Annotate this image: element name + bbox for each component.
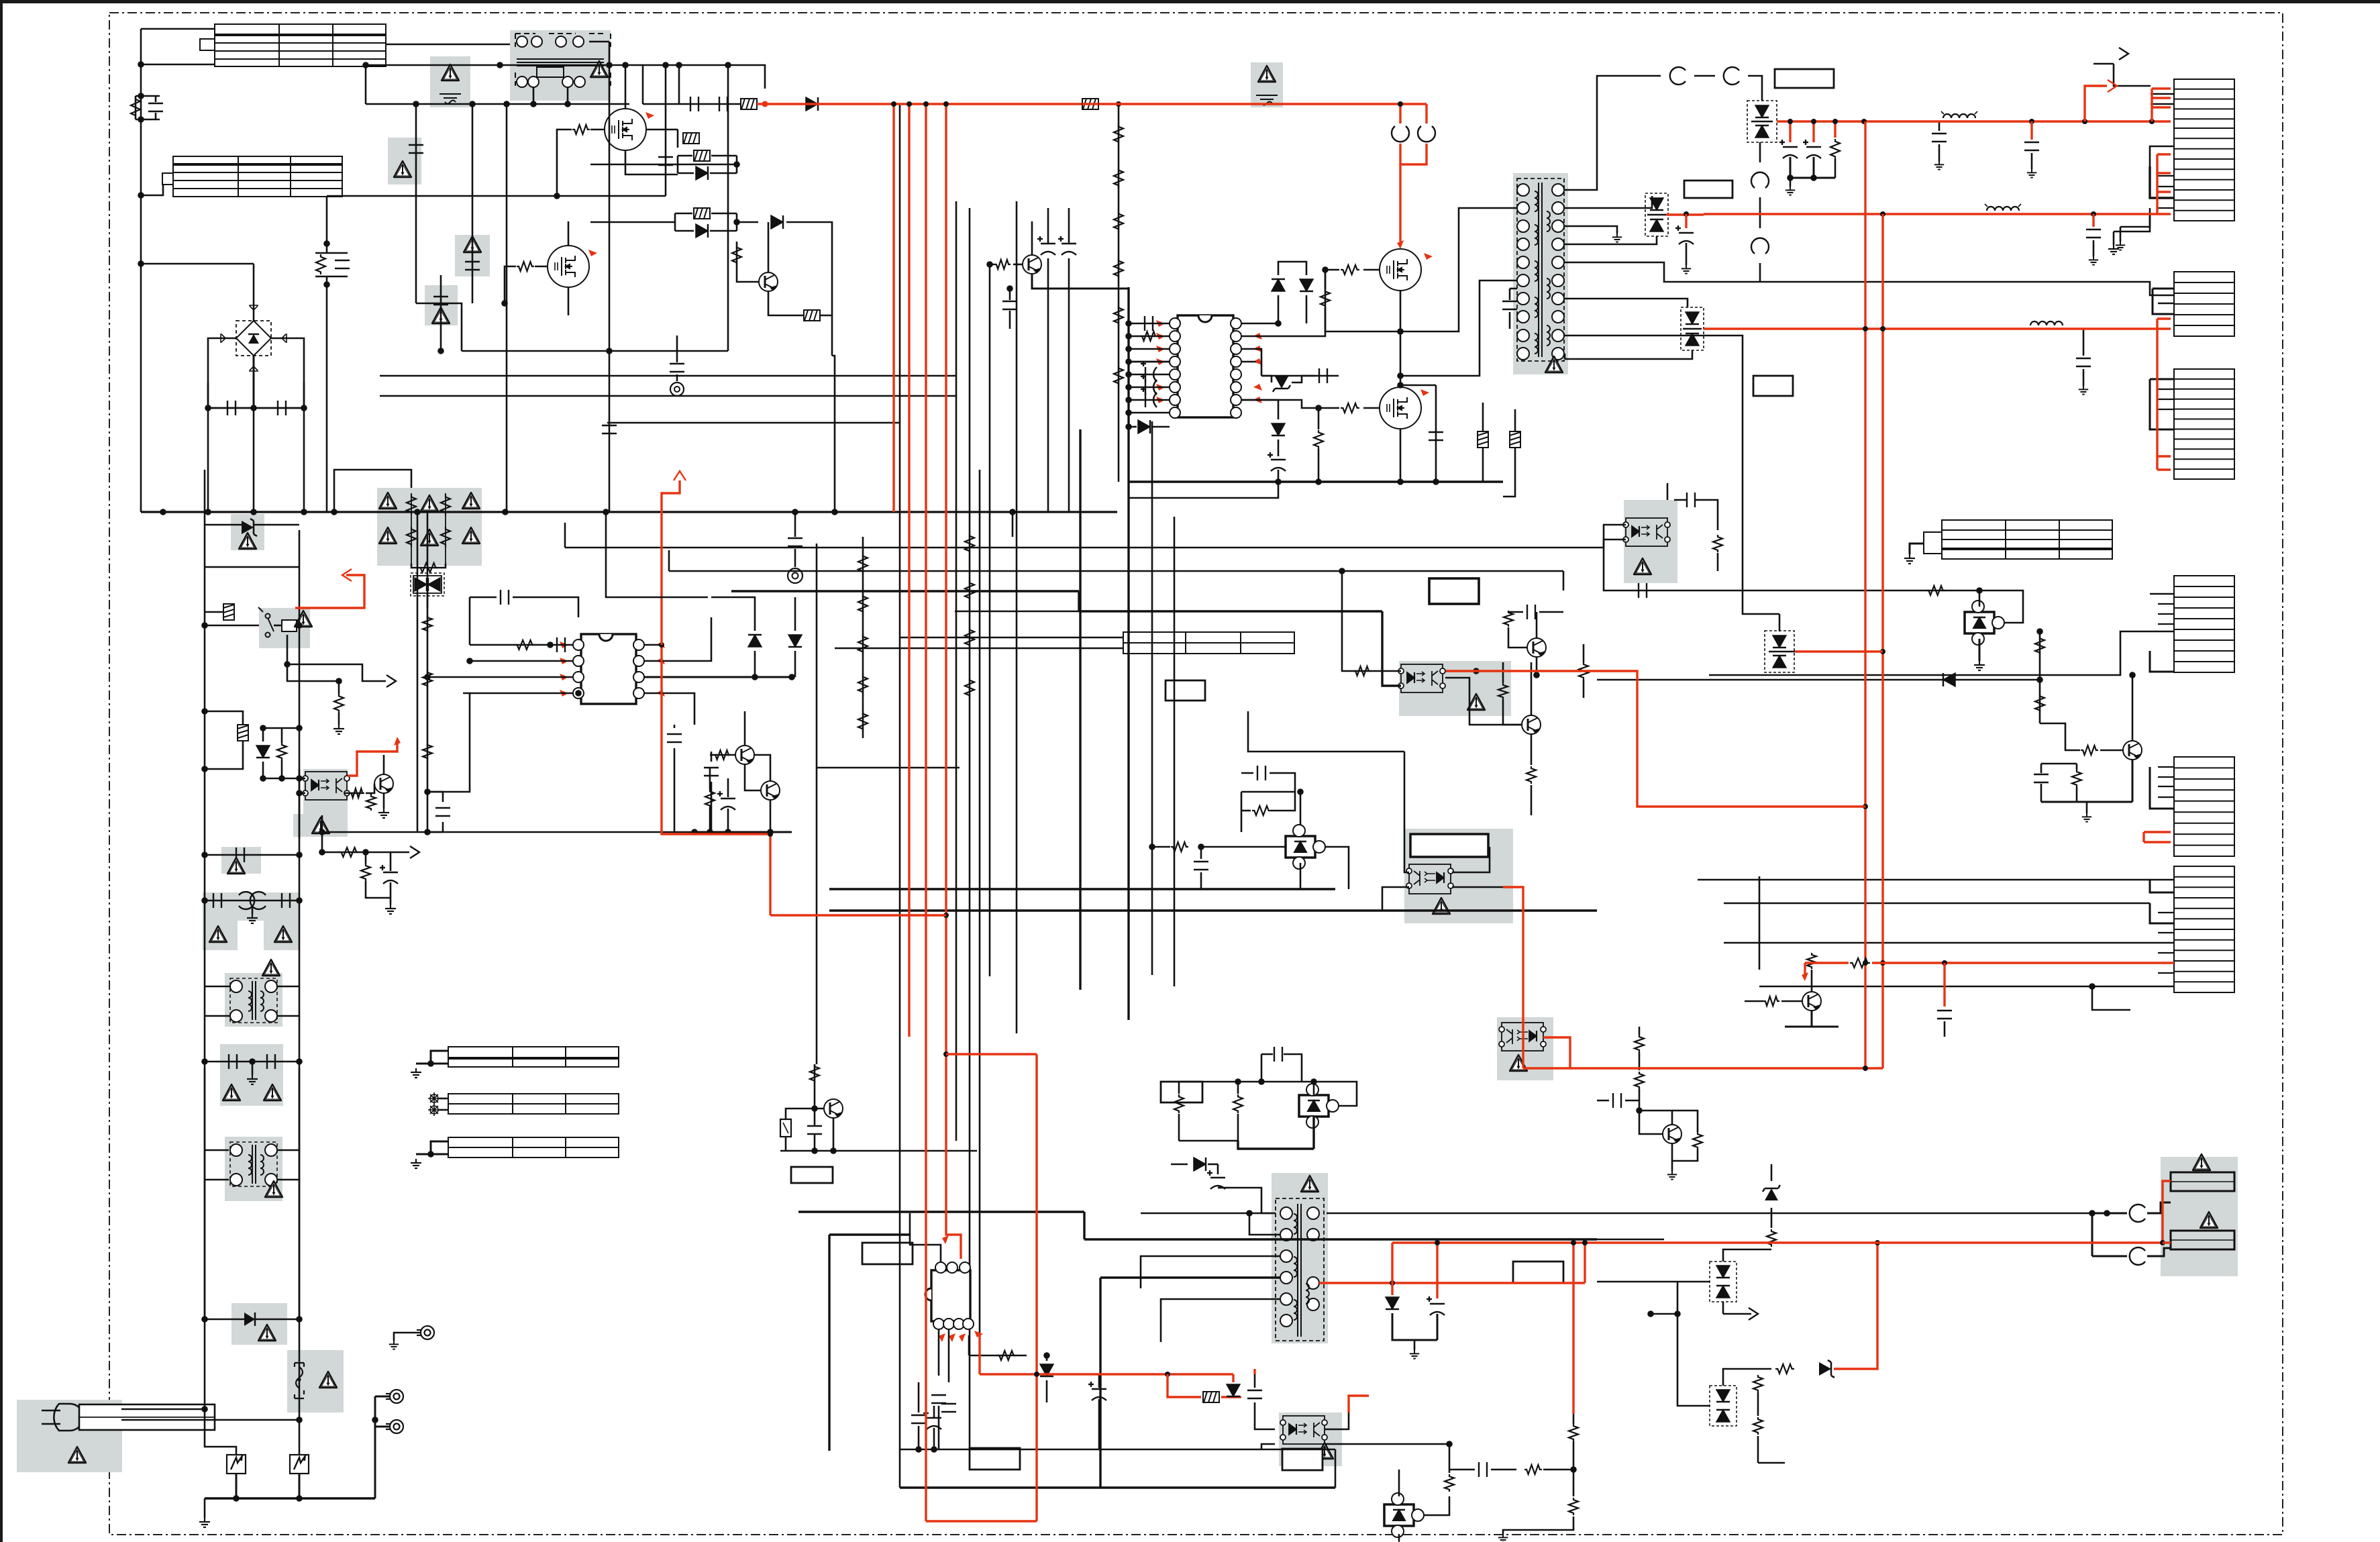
wire M3 source (1400, 291, 1402, 385)
red y1364 (770, 914, 946, 916)
wire y523 (462, 350, 728, 352)
gnd bus under IC1 (694, 831, 792, 833)
sec pin1R riser (1565, 76, 1661, 190)
X caps under bridge (208, 403, 304, 408)
shunt U-C (1384, 1493, 1424, 1537)
wire grid drop (427, 512, 429, 608)
IC2 body (1178, 315, 1233, 417)
dual diode pack2 (1645, 193, 1668, 236)
wire M4 gate (1363, 407, 1380, 409)
mosfet M3 (1380, 249, 1421, 291)
left page edge line (0, 0, 3, 1542)
wire comb stub (2150, 651, 2174, 672)
long thick h1806 (798, 1211, 1084, 1213)
wire IC3 top1 (910, 1235, 941, 1262)
long black h1810 (1597, 1239, 1664, 1241)
wire Q1 emitter (768, 291, 832, 315)
isolation transformer G12 (225, 973, 282, 1027)
res x2620 pair (1753, 1375, 1763, 1392)
wire top feed line (709, 65, 765, 89)
ref label L6b (791, 1167, 833, 1183)
resistor R-cap pair snubber2 (315, 252, 348, 254)
warning area G4 (455, 235, 490, 276)
diodes right of IC1 (748, 635, 762, 647)
shunt U-A (1965, 601, 2004, 645)
ref label L5 (1166, 680, 1205, 701)
ref label L8 (1513, 1262, 1563, 1283)
pol cap right (1088, 1382, 1106, 1400)
bjt Q1 (759, 272, 778, 291)
red ic3 bus (980, 1373, 1233, 1375)
connector CN-D (2174, 369, 2234, 479)
line filter transformer G2 (510, 30, 611, 101)
bjt Q10 (1023, 255, 1041, 274)
opto out down (321, 815, 323, 852)
opto G26 wires (1255, 1402, 1275, 1429)
wire h911 to opto (1382, 611, 1401, 686)
wire Q4 collector (383, 755, 385, 774)
opto G9 wires (299, 778, 305, 780)
wire IC1 right2 (644, 617, 711, 661)
red comb A stubs (2151, 89, 2153, 121)
wire Q9 emit (2132, 760, 2134, 802)
wire h763 tail (1012, 512, 1014, 537)
wire left join (1597, 1281, 1677, 1283)
shunt U-D (1299, 1084, 1339, 1128)
note table T5 (448, 1047, 619, 1067)
trafo G14 connects (205, 1149, 229, 1151)
wire T3 feeds (900, 637, 1123, 639)
wire Q10 coll (1031, 221, 1033, 255)
cluster cap res (2034, 774, 2049, 782)
cap snub trafo (1502, 301, 1517, 309)
note table T2 (162, 156, 342, 197)
shunt U-B (1286, 825, 1325, 869)
relay connect (205, 625, 259, 627)
wire y452 (416, 303, 462, 351)
ref label L6 (862, 1243, 913, 1264)
wire trafo25 top pins (1228, 1188, 1276, 1213)
cap area G10 (221, 847, 261, 874)
wire Q11 wires (785, 1137, 787, 1151)
wire to table T1 bottom (141, 64, 215, 66)
red opto g22 (1503, 887, 1523, 986)
red rail2 cap2 (1685, 214, 1687, 228)
connector CN-H (2174, 866, 2234, 992)
wire IC3 left thick (829, 1233, 910, 1235)
red rail1 cap (2030, 121, 2032, 140)
wire Q1 collector (768, 222, 770, 272)
wire h881 thick (731, 590, 1079, 592)
wire bridge top feed (141, 263, 254, 265)
wire h1357 thick (829, 909, 1597, 911)
wire Q11 base cap (807, 1126, 822, 1134)
cluster res caps (1635, 1035, 1644, 1052)
sec rail1 caps (1789, 121, 1791, 142)
bridge rectifier (236, 321, 271, 356)
wire trafo p4 thick (1100, 1276, 1280, 1278)
wire h630 (607, 422, 900, 424)
IC2 pins left (1170, 318, 1180, 329)
wire to table T1 row1 (141, 28, 215, 30)
red zener joint (1834, 1243, 1877, 1369)
opto coupler area G20 (1624, 500, 1677, 583)
wire bridge right leg (271, 338, 304, 403)
IC3 body (931, 1270, 970, 1321)
wire Q9 base (2100, 750, 2123, 752)
bjt Q7 (1522, 715, 1541, 734)
ref label L13 (1161, 1082, 1202, 1102)
wire q7 row (1445, 678, 1522, 725)
bjt Q9 (2123, 741, 2142, 760)
bus v1341 (899, 104, 901, 1488)
ring gnd 2 (676, 336, 678, 362)
main transformer G19 (1513, 173, 1568, 374)
wire v992 (665, 65, 667, 196)
chain zener taps (205, 524, 242, 526)
CN wire up (2092, 1213, 2127, 1215)
earth riser (374, 1396, 376, 1498)
wire 908 to bus (609, 65, 611, 512)
pack3 feeds (1565, 299, 1688, 307)
snubber cap right (1435, 385, 1437, 482)
sec long pin4 (1565, 262, 2174, 295)
red CN bottom (2163, 1181, 2171, 1243)
red drop x1410 (946, 104, 961, 1259)
wire h1310 (1698, 879, 2174, 881)
wire M2 gate (535, 266, 547, 268)
zener pair mid (1272, 279, 1285, 291)
cluster more (1639, 1111, 1663, 1134)
diode area G15 (231, 1303, 287, 1345)
opto coupler area G24 (1497, 1017, 1553, 1080)
red resistor inline (1082, 99, 1098, 109)
resistor on chain x305 (223, 604, 234, 620)
gate drive resistor top (1241, 270, 1325, 336)
note table T1 (200, 24, 386, 66)
diode res pair above opto (256, 746, 270, 758)
bjt Q11 (824, 1099, 843, 1118)
wire Q2 base res (710, 754, 735, 756)
wire h816 left drop (564, 523, 566, 548)
wire opto21 feed (1342, 571, 1401, 671)
trafo G12 connects (205, 986, 230, 988)
connector CN-A (2174, 79, 2234, 129)
sec pin3R gnd (1565, 226, 1617, 234)
wire M3 gate (1363, 269, 1380, 271)
comb C stubs (2153, 289, 2174, 314)
resistor R-cap pair left top (136, 95, 160, 97)
connector CN-B (2174, 128, 2234, 221)
wire M3 jog to pin (1400, 208, 1517, 331)
IC2 right wires3 (1241, 400, 1278, 419)
bus v1425 (955, 201, 958, 1141)
bus v1560c (1047, 258, 1049, 512)
bus v1717 (1151, 421, 1153, 975)
IC1 pin1 left wire (470, 644, 573, 646)
wire G7 to bus (334, 470, 411, 512)
red mid left (769, 833, 771, 835)
comb D stubs (2150, 378, 2174, 380)
note table T4 (1924, 520, 2112, 559)
zz diode pairs right (1710, 1262, 1737, 1302)
res chain x3040 (2039, 631, 2041, 723)
connector CN-F (2174, 576, 2234, 672)
comb H stubs (2150, 880, 2174, 892)
resistor ladder B (965, 533, 974, 554)
red drop x1355 (908, 104, 910, 1037)
isolation transformer G14 (225, 1137, 282, 1201)
wire res below pair (732, 245, 741, 265)
wire Q10 base (1013, 264, 1023, 266)
wire Q4 base (366, 784, 374, 793)
wire IC1 top caps (469, 597, 471, 645)
arcs top right (1670, 67, 1686, 85)
output connector area G27 (2161, 1157, 2238, 1276)
wire G2 pins down (533, 87, 535, 104)
cap cap res top feed (678, 65, 680, 104)
wire h1470 (1759, 986, 2174, 988)
wire filter block (491, 64, 709, 66)
wire M1 out right (647, 129, 678, 131)
wire IC1 right4 (644, 693, 694, 725)
red vert 2780 (1864, 121, 1866, 1068)
ref label L7 (970, 1448, 1020, 1470)
wire h1405 (1724, 942, 2174, 944)
wire h1346 (1724, 903, 2150, 905)
wire t1 to filter (386, 44, 510, 46)
resistor ladder A (1118, 104, 1120, 482)
main primary ground bus (141, 511, 1117, 513)
red drop x1380 (925, 104, 927, 1521)
wire h851 right bend (1563, 571, 1565, 590)
bottom gnd stub (204, 1498, 206, 1518)
wire h911 (955, 611, 1079, 613)
wire diode mid (771, 215, 783, 229)
bus v1475 (989, 264, 991, 976)
red rail1 (1777, 120, 2171, 122)
opto G22 left wires (1248, 711, 1404, 752)
wire h590 (380, 395, 956, 397)
shunt D wires (1179, 1081, 1289, 1083)
comb F stubs (2150, 593, 2174, 595)
red connector loop (1399, 104, 1401, 123)
bjt Q5 (1527, 638, 1546, 657)
wire Q6 coll (1811, 970, 1813, 992)
warning resistor grid G7 (377, 488, 482, 566)
dual diode pack below grid (411, 564, 446, 568)
snubber pair2 (694, 208, 710, 219)
IC1 pins left (573, 639, 584, 650)
wire trafo pin5L (1400, 280, 1517, 376)
red h1435 left (1804, 963, 1806, 974)
bottom gnd bus (205, 1497, 375, 1499)
wire h1006 (1709, 631, 2174, 675)
red small opto26 (1349, 1396, 1369, 1412)
diode feed (806, 97, 818, 111)
IC1 pins right (633, 639, 644, 650)
ref label L4 (1429, 578, 1479, 604)
wire top h96 (366, 64, 491, 66)
red g24 out (1543, 1037, 1570, 1068)
zz wires (1722, 1302, 1724, 1314)
snubber pair1 (671, 164, 737, 166)
opto coupler area G22 (1404, 829, 1513, 923)
ref label L1 (1775, 69, 1834, 88)
chain x446 connect opto (299, 769, 301, 839)
red comb E stubs (2156, 329, 2158, 470)
wire Q2 up (744, 711, 746, 746)
IC2 pin red arrows (1156, 320, 1165, 327)
ref label L3 (1753, 376, 1793, 396)
dual diode low (1765, 631, 1794, 672)
note table T6 (448, 1094, 619, 1114)
IC3 pins bottom (933, 1319, 944, 1329)
IC1 body (581, 634, 636, 704)
pack1 down arcs (1759, 142, 1761, 162)
red comb B stubs (2156, 154, 2158, 214)
wire h155 left (366, 103, 629, 105)
fuse area G16 (287, 1350, 344, 1412)
chain right vertical (299, 530, 301, 1420)
shunt A wires (1906, 590, 1979, 607)
wire to dd low (1565, 336, 1779, 614)
wire y1013 diode (1597, 679, 2040, 681)
wire IC3 caps bottom (938, 1329, 940, 1376)
red trafo out (1319, 1282, 1585, 1284)
red pack low out (1795, 650, 1883, 652)
AC inlet area G17 (17, 1400, 122, 1472)
mosfet M2 (548, 246, 589, 287)
red y1592 (1523, 1067, 1883, 1069)
snubber mid (1241, 792, 1243, 832)
wire Q6 base (1781, 1000, 1802, 1003)
wire left rail (140, 29, 142, 512)
opto g21 right up (1444, 670, 1476, 672)
wire IC3 feed (828, 1235, 830, 1451)
start resistor arrow (322, 852, 409, 854)
wire trafo p3 (1141, 1256, 1280, 1288)
warning area G1 (430, 56, 470, 107)
cap bank pol1 (1037, 236, 1055, 255)
mosfet M4 (1380, 387, 1421, 429)
top page edge line (0, 0, 2380, 3)
bus v1217 (816, 544, 818, 1064)
MOV to gnd bus (236, 1474, 238, 1498)
shunt B wires (1300, 792, 1302, 825)
bjt Q2 (735, 746, 754, 764)
MOV drops (205, 1409, 236, 1456)
wire Q7 (1503, 699, 1522, 725)
wire IC1 right1 (644, 644, 662, 646)
IC2 right wires2 (1241, 349, 1261, 376)
bus v1515 (1016, 201, 1018, 1033)
bjt Q8 (1663, 1125, 1681, 1143)
comb G stubs (2158, 766, 2174, 768)
wire bridge caps to bus (207, 408, 209, 512)
wire v2622 (1759, 876, 1761, 970)
red rail2 cap (2092, 214, 2094, 227)
wire M4 source down (1400, 429, 1402, 482)
red v2345 (1572, 1243, 1574, 1414)
res right pair (1569, 1424, 1578, 1441)
red branch M3 (1399, 164, 1401, 242)
dual diode pack1 (1747, 101, 1777, 142)
red h1435 (1805, 962, 1849, 964)
thick gnd bus bottom (900, 1486, 1335, 1488)
relay out down (287, 635, 342, 664)
wire h560 (380, 375, 956, 377)
wire M2 drain top (568, 221, 570, 245)
bus v1460 (979, 470, 981, 1335)
IC2 left pin wires (1129, 323, 1170, 325)
connector CN-C (2174, 272, 2234, 336)
X-cap filter area G11 (203, 892, 299, 921)
wire IC1 right3 (644, 676, 792, 678)
bus v1610 thick (1079, 429, 1081, 990)
red top bus (761, 103, 1427, 105)
AC line 1 (121, 1408, 205, 1410)
res cap pair under Q2 (705, 789, 715, 808)
warning area G5 (425, 285, 458, 325)
red ic1 chain (662, 645, 770, 915)
bjt Q3 (761, 781, 780, 800)
primary bottom bus (1129, 480, 1503, 482)
red chain opto G9 (348, 742, 397, 776)
bjt Q4 (374, 774, 393, 793)
wire M1 source chain (625, 150, 678, 174)
comb B gnd wire (2113, 232, 2115, 245)
chain top from bus (204, 470, 206, 514)
res diode ic3 (969, 1355, 1027, 1357)
opto G22 wires (1382, 887, 1409, 911)
red g21 link (1446, 671, 1865, 807)
note table T3 (1123, 632, 1294, 654)
red pin marks (645, 112, 654, 119)
chain left vertical (204, 557, 206, 1409)
cap at 908 (602, 425, 617, 433)
lc filter cap1 (1938, 121, 1941, 131)
wire M2 source (568, 288, 570, 315)
resistor chain2 (238, 725, 248, 741)
wire trafo p5 (1161, 1299, 1280, 1342)
red diode cap low (1386, 1297, 1399, 1309)
wire into trafo pin2 (1249, 1213, 1280, 1235)
wire Q5 (1508, 627, 1527, 648)
connector CN-G (2174, 757, 2234, 856)
wire 637 low (427, 693, 470, 792)
IC3 pins top (935, 1262, 946, 1273)
wire Q10 emit (1032, 274, 1129, 289)
bjt Q6 (1802, 992, 1821, 1011)
cap q10 (1002, 301, 1017, 309)
wire Q4 emitter (383, 793, 385, 809)
lc filter cap3 (2083, 329, 2085, 356)
cap bank pol2 (1058, 236, 1076, 255)
res below arrow (362, 680, 364, 682)
cap ring gnd (794, 512, 796, 537)
wire h292 (327, 195, 666, 197)
wire 903 branch (606, 512, 708, 597)
wire h816 (565, 547, 1580, 549)
bus v1593c (1068, 258, 1070, 512)
cap trio bottom (911, 1415, 926, 1423)
chain top jog (204, 556, 206, 558)
coil sym1 (1943, 114, 1975, 118)
ring terminal top (394, 1333, 421, 1341)
comb A entry (2114, 64, 2151, 86)
comb B black stubs (2150, 166, 2174, 198)
